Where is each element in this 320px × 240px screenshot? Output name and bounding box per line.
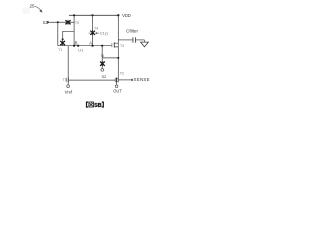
node: rail junction at T5 column [73, 14, 75, 16]
svg-text:Vref: Vref [65, 89, 73, 94]
annotation arrow C1() pointing at T4 [95, 32, 109, 36]
node: VDD terminal dot [117, 14, 119, 16]
svg-text:25: 25 [30, 3, 36, 8]
terminal S2 (bottom) [101, 69, 104, 72]
wire: jog from T5 column to switch T1 [63, 31, 74, 41]
svg-text:B: B [75, 41, 78, 46]
node wire from T1 to T3 gate (nodes B and A) [58, 45, 112, 47]
svg-text:5B: 5B [94, 103, 101, 109]
node B [77, 45, 79, 47]
ground [141, 40, 149, 47]
svg-text:U1: U1 [78, 47, 84, 52]
faint scan smudge top-left [23, 8, 31, 15]
terminal OUT [115, 85, 118, 88]
port S2 (left input) [43, 20, 51, 25]
switch T4 [89, 30, 95, 35]
svg-text:A: A [89, 41, 92, 46]
svg-text:T6: T6 [100, 54, 104, 58]
svg-text:T7: T7 [62, 78, 66, 82]
wire: T4 column from rail down to node A [92, 15, 94, 45]
svg-text:T2: T2 [120, 71, 124, 75]
wire: T6 branch to right column [102, 57, 118, 59]
node: junction on S2 wire [57, 21, 59, 23]
node: junction T6 column on node wire [101, 45, 103, 47]
svg-text:VDD: VDD [122, 13, 131, 18]
VDD rail [69, 14, 118, 16]
svg-text:S2: S2 [102, 74, 108, 79]
svg-text:T3: T3 [120, 44, 124, 48]
wire: right column from VDD down to T2 [117, 15, 119, 82]
switch T5 [65, 20, 70, 25]
svg-text:C1(): C1() [100, 32, 109, 36]
wire: T6 column from node wire down to terminal [101, 46, 103, 69]
wire: T7 to T2 gate [69, 79, 115, 81]
svg-text:OUT: OUT [113, 89, 122, 94]
reference numeral 25 with leader arrow [30, 3, 43, 12]
wire: S2 input to T5 column [50, 21, 74, 23]
svg-text:T1: T1 [58, 48, 62, 52]
transistor T2 [115, 78, 118, 85]
node: junction right column with T6 branch [117, 57, 119, 59]
capacitor Cfilter [118, 29, 144, 43]
wire: junction down to node rail [57, 22, 59, 45]
wire: T5 column from VDD rail down to node wire [73, 15, 75, 45]
port SENSE [118, 77, 150, 82]
switch T1 [60, 39, 65, 46]
svg-text:Cfilter: Cfilter [126, 29, 138, 34]
node: rail junction at T4 column [91, 14, 93, 16]
switch T6 [100, 61, 105, 66]
node A [91, 45, 93, 47]
terminal Vref [67, 85, 70, 88]
svg-text:T4: T4 [94, 27, 98, 31]
transistor T7 [66, 46, 69, 85]
svg-text:T5: T5 [75, 21, 79, 25]
svg-text:SENSE: SENSE [134, 77, 150, 82]
node: junction T5 column on node wire [73, 45, 75, 47]
figure caption 図5B [87, 102, 104, 109]
transistor T3 [112, 42, 119, 47]
